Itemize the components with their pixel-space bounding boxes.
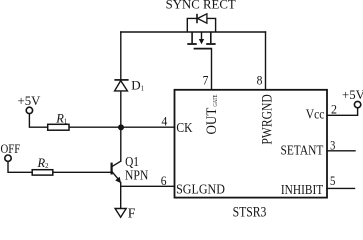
svg-text:OUT: OUT — [204, 108, 220, 135]
diode D1 — [114, 78, 144, 93]
channel bar right — [206, 43, 215, 45]
wire emitter node to pin6 SGLGND — [121, 185, 175, 187]
svg-text:OFF: OFF — [1, 142, 21, 156]
wire left vertical (top rail to collector) — [120, 32, 122, 161]
wire +5V left to R1 — [29, 114, 47, 128]
svg-text:INHIBIT: INHIBIT — [281, 182, 324, 197]
gate plate — [194, 48, 212, 50]
node OFF terminal — [1, 142, 21, 162]
body diode triangle — [198, 14, 207, 23]
svg-text:3: 3 — [330, 139, 335, 153]
svg-text:F: F — [128, 205, 136, 219]
wire emitter node down to ground — [120, 183, 122, 209]
wire pin3 stub — [327, 150, 355, 152]
node +5V right terminal — [342, 87, 363, 108]
resistor R2 — [32, 156, 53, 175]
pin 7 label OUT GATE (rotated) — [204, 95, 220, 135]
IC U1 STSR3 box — [175, 90, 328, 198]
wire OFF to R2 — [8, 162, 32, 173]
svg-text:2: 2 — [331, 102, 337, 116]
resistor R1 — [48, 112, 69, 131]
ground F — [115, 205, 136, 220]
drain leg — [191, 32, 193, 43]
junction node (R1 / D1 / collector / pin4) — [118, 124, 124, 130]
svg-text:+5V: +5V — [342, 87, 363, 102]
source leg — [210, 32, 212, 43]
MOSFET SYNC RECT — [166, 0, 236, 49]
svg-text:STSR3: STSR3 — [233, 204, 267, 219]
svg-text:CK: CK — [176, 120, 192, 135]
svg-text:7: 7 — [203, 73, 209, 87]
transistor Q1 NPN — [112, 154, 149, 184]
svg-text:+5V: +5V — [18, 93, 41, 108]
wire pin8 vertical — [265, 32, 267, 90]
svg-text:8: 8 — [257, 73, 263, 87]
wire pin2 Vcc to +5V right — [327, 108, 358, 115]
svg-text:5: 5 — [330, 174, 335, 188]
wire gate lead to pin7 — [211, 49, 213, 90]
wire pin5 stub — [327, 187, 355, 189]
body diode cathode bar — [196, 14, 198, 23]
wire R2 to Q1 base — [53, 171, 111, 173]
svg-text:SETANT: SETANT — [281, 143, 324, 158]
wire main top rail — [121, 31, 266, 33]
svg-text:GATE: GATE — [212, 95, 219, 107]
svg-text:NPN: NPN — [125, 167, 149, 182]
svg-text:Vcc: Vcc — [306, 106, 325, 121]
body arrow — [201, 32, 203, 39]
svg-text:4: 4 — [162, 114, 168, 128]
wire R1 to pin4 CK — [69, 126, 175, 128]
channel bar left — [187, 43, 196, 45]
node +5V left terminal — [18, 93, 41, 113]
svg-text:PWRGND: PWRGND — [259, 94, 275, 144]
body diode loop wire — [187, 18, 215, 32]
svg-text:SGLGND: SGLGND — [176, 182, 225, 197]
svg-text:6: 6 — [161, 174, 167, 188]
svg-text:SYNC RECT: SYNC RECT — [166, 0, 236, 12]
